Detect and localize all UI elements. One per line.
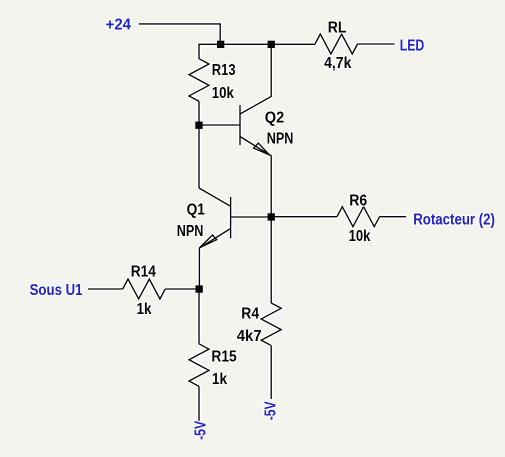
- resistor R15: [189, 344, 209, 387]
- svg-text:R15: R15: [211, 348, 237, 365]
- svg-text:1k: 1k: [212, 371, 227, 388]
- wire R6 to Rotacteur: [380, 216, 406, 218]
- svg-text:NPN: NPN: [177, 223, 204, 240]
- svg-text:LED: LED: [400, 38, 425, 55]
- resistor R6: [337, 207, 380, 227]
- svg-text:R6: R6: [349, 193, 367, 210]
- wire node C to R6: [271, 216, 337, 218]
- svg-text:Q2: Q2: [265, 110, 285, 127]
- svg-text:R4: R4: [241, 306, 259, 323]
- node D junction: [196, 285, 203, 292]
- svg-text:4k7: 4k7: [237, 328, 262, 345]
- wire node C down to R4: [270, 217, 272, 303]
- svg-text:Sous U1: Sous U1: [30, 282, 83, 299]
- svg-text:-5V: -5V: [192, 420, 209, 439]
- wire top rail: [199, 44, 315, 58]
- wire RL to LED: [358, 43, 395, 45]
- svg-text:-5V: -5V: [263, 401, 280, 420]
- wire +24 lead: [139, 24, 220, 44]
- junction at +24/rail: [217, 41, 224, 48]
- wire node B to Q2 base: [199, 124, 240, 126]
- svg-text:NPN: NPN: [267, 131, 294, 148]
- wire R13 bottom lead: [198, 101, 200, 125]
- node C junction: [268, 213, 275, 220]
- svg-text:+24: +24: [106, 17, 132, 34]
- wire Sous U1 to R14: [88, 288, 123, 290]
- svg-text:10k: 10k: [349, 228, 371, 245]
- wire R15 to -5V: [198, 386, 200, 421]
- transistor Q1: [199, 188, 271, 289]
- svg-text:Rotacteur (2): Rotacteur (2): [413, 211, 495, 228]
- wire R14 to node D: [165, 288, 199, 290]
- wire node B down to Q1 collector: [198, 125, 200, 188]
- wire R4 to -5V: [270, 346, 272, 399]
- resistor R13: [189, 59, 209, 102]
- resistor RL: [315, 34, 358, 54]
- resistor R4: [261, 303, 281, 346]
- transistor Q2: [240, 44, 271, 216]
- wire node D down to R15: [198, 289, 200, 344]
- resistor R14: [123, 279, 166, 299]
- svg-text:10k: 10k: [212, 85, 234, 102]
- svg-text:1k: 1k: [137, 301, 152, 318]
- svg-text:RL: RL: [328, 19, 347, 36]
- junction at Q2 collector/rail: [268, 41, 275, 48]
- svg-text:Q1: Q1: [187, 201, 206, 218]
- svg-text:R14: R14: [131, 263, 156, 280]
- svg-text:R13: R13: [212, 62, 236, 79]
- node B junction: [195, 122, 202, 129]
- svg-text:4,7k: 4,7k: [324, 55, 352, 72]
